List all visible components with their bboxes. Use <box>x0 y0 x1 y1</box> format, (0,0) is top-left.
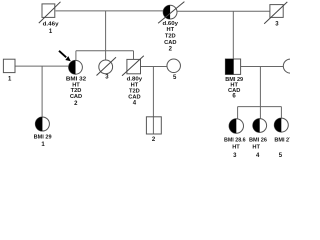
svg-text:T2D: T2D <box>165 34 176 40</box>
svg-text:1: 1 <box>49 29 53 35</box>
svg-text:2: 2 <box>152 137 156 143</box>
svg-text:4: 4 <box>133 101 137 107</box>
svg-text:HT: HT <box>167 27 175 33</box>
svg-text:3: 3 <box>275 21 279 27</box>
svg-text:2: 2 <box>74 101 78 107</box>
svg-text:CAD: CAD <box>164 40 176 46</box>
svg-text:6: 6 <box>232 94 236 100</box>
svg-text:d.60y: d.60y <box>163 21 179 27</box>
svg-text:5: 5 <box>173 75 177 81</box>
svg-text:3: 3 <box>233 153 237 158</box>
svg-text:2: 2 <box>169 46 173 52</box>
svg-text:3: 3 <box>105 74 109 80</box>
svg-text:4: 4 <box>256 153 260 158</box>
svg-text:CAD: CAD <box>70 94 82 100</box>
svg-text:1: 1 <box>41 142 45 148</box>
svg-text:BMI 27: BMI 27 <box>274 138 290 144</box>
svg-text:CAD: CAD <box>128 94 140 100</box>
svg-text:HT: HT <box>252 145 260 151</box>
svg-text:HT: HT <box>232 145 240 151</box>
svg-text:1: 1 <box>8 76 12 82</box>
svg-text:BMI 26: BMI 26 <box>249 138 267 144</box>
svg-text:BMI 28.6: BMI 28.6 <box>224 138 246 144</box>
svg-text:5: 5 <box>279 153 283 158</box>
svg-text:BMI 29: BMI 29 <box>34 134 52 140</box>
svg-text:d.46y: d.46y <box>43 21 60 27</box>
